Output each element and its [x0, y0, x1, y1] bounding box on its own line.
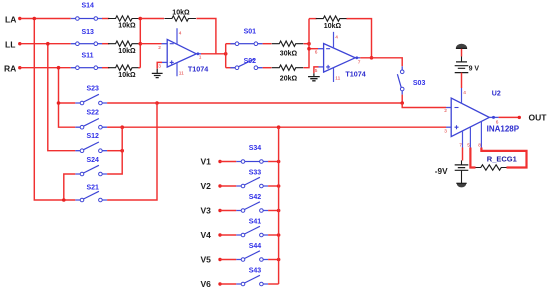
- pin stub opamp1 output: [196, 53, 201, 55]
- switch S21: [75, 199, 107, 201]
- svg-text:V1: V1: [201, 157, 212, 167]
- svg-text:S02: S02: [244, 58, 257, 65]
- svg-text:INA128P: INA128P: [487, 124, 520, 133]
- node S44 junction: [277, 258, 281, 262]
- svg-text:LA: LA: [5, 14, 16, 24]
- wire opamp1 output: [201, 53, 226, 55]
- resistor 10k LL: [108, 41, 140, 46]
- node S12 junction: [120, 149, 124, 153]
- node feedback2 output junction: [370, 56, 374, 60]
- wire V6 to switch: [220, 283, 236, 285]
- svg-text:LL: LL: [5, 39, 15, 49]
- svg-text:3: 3: [158, 63, 161, 69]
- wire S24 input branch: [64, 174, 76, 200]
- svg-text:S41: S41: [249, 219, 262, 226]
- svg-text:11: 11: [335, 75, 340, 81]
- switch S43: [236, 283, 268, 285]
- svg-text:5: 5: [467, 142, 470, 148]
- pin stub INA pin7: [462, 131, 464, 148]
- switch S33: [236, 185, 268, 187]
- wire RA to S23: [59, 102, 76, 104]
- svg-text:V2: V2: [201, 181, 212, 191]
- opamp2 output pin dot: [355, 56, 358, 59]
- wire S23 out: [107, 102, 157, 104]
- node1 mid junction: [139, 42, 143, 46]
- node LL junction: [46, 42, 50, 46]
- wire S34 out: [268, 161, 279, 163]
- svg-text:R_ECG1: R_ECG1: [487, 155, 517, 164]
- wire LL row: [20, 43, 71, 45]
- wire S02 to 20k: [263, 67, 272, 69]
- svg-text:10kΩ: 10kΩ: [118, 72, 136, 79]
- INA output pin dot: [492, 116, 495, 119]
- svg-text:S21: S21: [87, 185, 100, 192]
- wire V3 to switch: [220, 210, 236, 212]
- wire V2 to switch: [220, 185, 236, 187]
- wire INA output: [499, 116, 520, 118]
- wire node1 vertical: [139, 19, 141, 68]
- svg-text:S44: S44: [249, 243, 262, 250]
- svg-text:6: 6: [315, 49, 318, 55]
- switch S41: [236, 234, 268, 236]
- wire S42 out: [268, 210, 279, 212]
- battery V2 -9V plates: [455, 165, 469, 170]
- wire 9V gnd stub: [461, 49, 463, 57]
- wire feedback2 right: [347, 19, 372, 58]
- wire to S01: [226, 43, 237, 45]
- pin stub opamp1 plus: [162, 61, 167, 63]
- node lineB left: [120, 125, 124, 129]
- svg-text:4: 4: [463, 90, 466, 96]
- pin stub opamp1 minus: [162, 43, 168, 45]
- battery V2 stem top: [462, 148, 463, 165]
- switch S14: [71, 18, 103, 20]
- node S24-S21 junction: [62, 198, 66, 202]
- svg-text:S11: S11: [82, 53, 94, 60]
- node lineA left: [155, 101, 159, 105]
- wire opamp1 plus to gnd: [157, 62, 162, 68]
- wire LA branch vertical: [34, 19, 75, 201]
- wire V4 to switch: [220, 234, 236, 236]
- ground stem opamp2: [313, 73, 315, 76]
- wire line B (S22 bus): [122, 126, 446, 128]
- svg-text:S03: S03: [413, 80, 426, 87]
- wire opamp1 minus input: [140, 43, 161, 45]
- terminal OUT: [518, 116, 521, 119]
- terminal V6: [218, 282, 221, 285]
- switch S12: [75, 150, 107, 152]
- svg-text:S23: S23: [87, 85, 100, 92]
- wire R to node1 (LL): [138, 43, 140, 45]
- node S34 junction: [277, 160, 281, 164]
- wire S41 out: [268, 234, 279, 236]
- svg-text:S42: S42: [249, 194, 262, 201]
- pin stub opamp2 output: [355, 57, 360, 59]
- wire feedback1 right: [196, 19, 216, 54]
- svg-text:T1074: T1074: [345, 70, 365, 79]
- ground opamp1: [152, 73, 163, 77]
- pin stub S03 bottom: [401, 91, 403, 95]
- svg-text:S01: S01: [244, 29, 257, 36]
- svg-text:10kΩ: 10kΩ: [172, 9, 190, 16]
- terminal RA: [18, 66, 21, 69]
- svg-text:-9V: -9V: [435, 167, 448, 176]
- resistor 20k: [272, 65, 304, 70]
- pin stub S03 top: [401, 66, 403, 70]
- svg-text:S43: S43: [249, 268, 262, 275]
- terminal V5: [218, 258, 221, 261]
- node lineA S03 junction: [400, 101, 404, 105]
- wire 9V to INA pin4: [461, 73, 463, 88]
- battery V1 9V plates: [455, 62, 469, 73]
- node2 S01 junction: [307, 42, 311, 46]
- terminal LL: [18, 42, 21, 45]
- pin stub INA output: [489, 116, 498, 118]
- svg-text:10kΩ: 10kΩ: [118, 23, 136, 30]
- resistor 10k RA: [108, 65, 140, 70]
- pin stub INA top power: [461, 88, 463, 104]
- svg-text:S34: S34: [249, 145, 262, 152]
- svg-text:7: 7: [358, 59, 361, 65]
- resistor 10k feedback1: [164, 16, 196, 21]
- pin stub INA pin8: [480, 121, 482, 147]
- switch S03: [397, 74, 401, 87]
- svg-text:V3: V3: [201, 206, 212, 216]
- wire S12 out: [107, 150, 122, 152]
- ground stem opamp1: [156, 69, 158, 73]
- node lineB Vbus junction: [277, 125, 281, 129]
- wire R to node1 (LA): [138, 18, 140, 20]
- switch S24: [75, 173, 107, 175]
- pin stub opamp2 plus: [319, 66, 324, 68]
- op-amp U1 triangle: [167, 39, 196, 67]
- svg-text:4: 4: [179, 31, 182, 37]
- terminal V3: [218, 209, 221, 212]
- svg-text:V6: V6: [201, 279, 212, 289]
- terminal V4: [218, 233, 221, 236]
- node2 minus junction: [307, 47, 311, 51]
- wire opamp2 output: [360, 58, 402, 67]
- wire LL branch vertical: [48, 44, 76, 151]
- wire V1 to switch: [220, 161, 236, 163]
- wire S03 to lineA: [401, 95, 403, 103]
- svg-text:8: 8: [478, 142, 481, 148]
- svg-text:S22: S22: [87, 110, 100, 117]
- ground opamp2: [308, 77, 320, 81]
- svg-text:V5: V5: [201, 255, 212, 265]
- ground dome top (earth for 9V): [456, 44, 467, 49]
- wire S14 to R: [102, 18, 109, 20]
- wire V5 to switch: [220, 259, 236, 261]
- switch S22: [75, 126, 107, 128]
- switch S02: [230, 67, 262, 69]
- op-amp U1 power pins: [176, 28, 178, 76]
- svg-text:RA: RA: [4, 63, 16, 73]
- wire 30k to node2: [304, 43, 310, 45]
- node S33 junction: [277, 184, 281, 188]
- wire R to node1 (RA): [138, 67, 140, 69]
- switch S23: [75, 102, 107, 104]
- wire lineA jog to INA minus: [402, 103, 446, 108]
- wire feedback2 top: [309, 18, 317, 20]
- battery 9V terminal stem: [461, 57, 463, 62]
- pin stub INA pin5: [469, 127, 471, 148]
- node LA junction: [33, 17, 37, 21]
- svg-text:S13: S13: [82, 29, 95, 36]
- wire opamp2 minus input: [309, 48, 318, 50]
- op-amp U2 triangle INA128P: [451, 98, 489, 137]
- pin stub INA minus: [446, 107, 451, 109]
- wire R_ECG1 loop pin8 side: [481, 148, 526, 168]
- wire S43 out: [268, 283, 279, 285]
- resistor R_ECG1: [476, 165, 507, 170]
- wire S23 collector vertical: [107, 103, 157, 200]
- node output1 split: [224, 52, 228, 56]
- wire LA row: [20, 18, 71, 20]
- node S41 junction: [277, 233, 281, 237]
- wire S01 to 30k: [263, 43, 272, 45]
- wire RA branch vertical: [59, 68, 76, 128]
- svg-text:OUT: OUT: [529, 113, 548, 123]
- node1 top junction: [139, 17, 143, 21]
- wire R_ECG1 loop pin5 side: [470, 148, 475, 168]
- svg-text:7: 7: [459, 142, 462, 148]
- svg-text:10kΩ: 10kΩ: [324, 23, 342, 30]
- switch S11: [71, 67, 103, 69]
- svg-text:10kΩ: 10kΩ: [118, 48, 136, 55]
- wire S22 out: [107, 126, 122, 128]
- wire to S02: [226, 67, 237, 69]
- svg-text:S12: S12: [87, 133, 100, 140]
- terminal LA: [18, 17, 21, 20]
- svg-text:20kΩ: 20kΩ: [280, 76, 298, 83]
- resistor 10k feedback2: [316, 16, 348, 21]
- battery V2 stem bottom: [461, 170, 463, 183]
- svg-text:S24: S24: [87, 157, 100, 164]
- resistor 30k: [272, 41, 304, 46]
- switch S34: [236, 161, 268, 163]
- svg-text:2: 2: [158, 45, 161, 51]
- wire split vertical S01-S02: [225, 44, 227, 68]
- wire S13 to R: [102, 43, 109, 45]
- terminal V2: [218, 184, 221, 187]
- svg-text:11: 11: [179, 71, 184, 77]
- wire S11 to R: [102, 67, 109, 69]
- node RA junction: [57, 66, 61, 70]
- svg-text:30kΩ: 30kΩ: [280, 51, 298, 58]
- node RA-S23 junction: [57, 101, 61, 105]
- svg-text:V4: V4: [201, 230, 212, 240]
- svg-text:2: 2: [444, 108, 447, 114]
- pin stub opamp2 minus: [318, 48, 324, 50]
- resistor 10k LA: [108, 16, 140, 21]
- wire S33 out: [268, 185, 279, 187]
- wire INA pin7 to -9V: [462, 148, 464, 161]
- switch S01: [230, 43, 262, 45]
- op-amp U1B triangle: [324, 44, 356, 73]
- svg-text:T1074: T1074: [188, 64, 208, 73]
- svg-text:6: 6: [496, 120, 499, 126]
- wire S44 out: [268, 259, 279, 261]
- wire opamp2 plus to gnd: [314, 67, 319, 73]
- wire V bus vertical: [278, 127, 280, 284]
- op-amp U1B power pins: [333, 32, 335, 82]
- opamp1 output pin dot: [197, 52, 200, 55]
- wire line A (S23 bus): [157, 102, 402, 104]
- svg-text:3: 3: [444, 129, 447, 135]
- svg-text:4: 4: [335, 34, 338, 40]
- node S42 junction: [277, 209, 281, 213]
- ground dome bottom (earth for -9V): [457, 183, 467, 187]
- svg-text:1: 1: [199, 55, 202, 61]
- switch S44: [236, 259, 268, 261]
- terminal V1: [218, 160, 221, 163]
- svg-text:S14: S14: [82, 2, 95, 9]
- svg-text:9 V: 9 V: [469, 65, 480, 72]
- wire 20k to node2: [304, 19, 310, 68]
- svg-text:5: 5: [315, 68, 318, 74]
- switch S42: [236, 210, 268, 212]
- svg-text:S33: S33: [249, 170, 262, 177]
- wire feedback1 top: [140, 18, 164, 20]
- svg-text:U2: U2: [492, 90, 501, 97]
- wire S12-S24 vertical: [107, 127, 122, 174]
- pin stub INA plus: [446, 126, 451, 128]
- switch S13: [71, 43, 103, 45]
- wire RA row: [20, 67, 71, 69]
